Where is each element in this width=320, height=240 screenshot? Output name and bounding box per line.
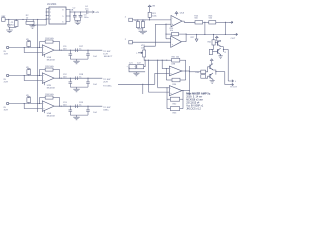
wire stage B out bbox=[216, 71, 225, 73]
wire feedback line bbox=[166, 33, 172, 35]
wire U4A output bbox=[182, 90, 189, 92]
wire op-amp power stub bbox=[44, 55, 46, 58]
wire feedback bus U3B bbox=[167, 59, 172, 61]
wire emitters join B bbox=[213, 70, 216, 75]
wire U1A inverting input bbox=[166, 23, 171, 25]
wire feedback left leg bbox=[39, 98, 41, 104]
node +VB flag bbox=[92, 11, 94, 13]
op-amp U3A bbox=[42, 101, 54, 112]
U1 left pins bbox=[46, 9, 49, 20]
svg-text:R14 100k: R14 100k bbox=[45, 38, 54, 40]
wire stub bbox=[142, 84, 144, 94]
svg-text:R15 100k: R15 100k bbox=[45, 66, 54, 68]
wire feedback right bbox=[185, 60, 187, 71]
op-amp U1A bbox=[171, 16, 182, 27]
resistor R24 feedback bbox=[172, 32, 179, 35]
ground bbox=[133, 72, 139, 76]
wire bbox=[216, 21, 229, 23]
node down arrow flag bbox=[195, 39, 198, 42]
node +VB flag bbox=[215, 36, 218, 39]
wire out R bbox=[225, 84, 230, 86]
resistor R12 bias bbox=[27, 70, 31, 75]
wire bridge 1 bbox=[204, 22, 206, 34]
wire feedback left leg bbox=[39, 70, 41, 76]
wire to noninverting bbox=[23, 76, 25, 81]
resistor R31 feedback bbox=[172, 58, 180, 62]
resistor R44 base bbox=[201, 75, 206, 79]
svg-text:+VB: +VB bbox=[151, 6, 156, 8]
wire feedback right bbox=[182, 91, 184, 109]
wire feedback top bbox=[40, 41, 46, 43]
svg-text:3CH: 3CH bbox=[4, 109, 9, 111]
wire Q4 emitter down bbox=[212, 79, 214, 80]
capacitor C1 bbox=[7, 19, 11, 27]
wire Q3 collector bbox=[211, 62, 213, 64]
node VB flag bar bbox=[27, 68, 30, 70]
svg-text:LM 2904: LM 2904 bbox=[47, 3, 57, 6]
connector input IN bbox=[6, 46, 8, 48]
resistor R32 feedback bbox=[170, 97, 179, 101]
wire Q4 base bbox=[206, 76, 210, 78]
wire feedback top bbox=[40, 69, 46, 71]
node +VB flag bbox=[210, 59, 213, 62]
wire op-amp output bbox=[54, 77, 102, 79]
capacitor C19 series bbox=[76, 104, 78, 108]
wire U4A feedback left bbox=[166, 88, 168, 109]
svg-text:TO SW: TO SW bbox=[103, 51, 111, 53]
svg-text:2: 2 bbox=[50, 12, 51, 14]
svg-text:2CH: 2CH bbox=[4, 81, 9, 83]
wire cap-resistor common to ground bbox=[9, 26, 16, 28]
wire emitters join bbox=[221, 46, 224, 48]
ground bbox=[73, 115, 79, 120]
resistor R11 bias bbox=[27, 42, 31, 47]
transistor Q3 bbox=[209, 65, 211, 69]
wire shunt common bbox=[70, 86, 88, 88]
wire op-amp power stub bbox=[44, 111, 46, 114]
wire bridge 2 bbox=[224, 22, 226, 34]
U1 right pins bbox=[66, 10, 70, 22]
wire lower output chain bbox=[186, 33, 233, 35]
wire Q3 base bbox=[206, 67, 210, 72]
wire input bbox=[9, 103, 43, 105]
svg-text:OUT: OUT bbox=[231, 38, 236, 40]
svg-text:3: 3 bbox=[50, 15, 51, 17]
wire from label net bbox=[118, 83, 155, 85]
transistor Q2 bbox=[217, 49, 219, 53]
svg-text:R22: R22 bbox=[134, 20, 137, 22]
ground bbox=[139, 29, 147, 34]
wire bbox=[203, 21, 209, 23]
capacitor C22 electrolytic bbox=[129, 65, 136, 69]
node VB flag bar bbox=[27, 40, 30, 42]
svg-text:100k: 100k bbox=[152, 15, 156, 17]
wire feedback left leg bbox=[39, 42, 41, 48]
capacitor C4 series bbox=[86, 10, 88, 14]
node +VB flag bbox=[148, 5, 151, 8]
svg-text:R31 10k: R31 10k bbox=[172, 56, 179, 58]
wire stage A out bbox=[223, 48, 228, 50]
svg-text:1: 1 bbox=[50, 8, 51, 10]
svg-text:U3B: U3B bbox=[171, 64, 176, 66]
resistor R33 bbox=[170, 107, 179, 111]
wire drive stage A bbox=[213, 34, 215, 39]
resistor R34 feedback bbox=[172, 78, 180, 82]
wire input power rail bbox=[9, 18, 46, 20]
node +VB flag bbox=[175, 12, 178, 15]
op-amp U4A bbox=[169, 86, 182, 96]
wire Q2 links bbox=[213, 50, 218, 52]
node output arrow L bbox=[230, 80, 234, 82]
op-amp U2A bbox=[42, 45, 54, 56]
wire U3B noninverting bbox=[155, 72, 170, 74]
wire pot bottom rail bbox=[144, 57, 167, 60]
op-amp U3B bbox=[169, 66, 182, 76]
resistor R25 bbox=[195, 21, 203, 24]
transistor Q4 bbox=[209, 74, 211, 78]
wire U4A inverting bbox=[157, 60, 159, 88]
connector input IN bbox=[6, 102, 8, 104]
wire to U1A noninverting bbox=[132, 19, 171, 21]
svg-text:MC4558: MC4558 bbox=[47, 87, 56, 89]
ground bbox=[29, 25, 35, 28]
wire op-amp output bbox=[54, 105, 102, 107]
op-amp U1B bbox=[171, 36, 182, 47]
resistor R1 bbox=[14, 21, 18, 27]
node output arrow rec bbox=[229, 21, 233, 23]
wire Q1 base link bbox=[215, 41, 217, 43]
resistor R26 bbox=[209, 21, 216, 24]
wire U1B output bbox=[182, 41, 187, 43]
svg-text:R16 100k: R16 100k bbox=[45, 94, 54, 96]
capacitor C18 series bbox=[76, 76, 78, 80]
wire U1B inverting bbox=[166, 38, 171, 40]
wire U4A noninverting bbox=[147, 60, 149, 92]
wire pot top to U1A path bbox=[144, 24, 166, 50]
ground bbox=[219, 56, 223, 59]
svg-text:10k: 10k bbox=[141, 47, 144, 49]
capacitor C3 electrolytic bbox=[79, 12, 83, 21]
svg-text:6: 6 bbox=[62, 21, 63, 23]
wire U1 left rail bbox=[45, 9, 47, 26]
node output arrow R bbox=[230, 83, 234, 85]
svg-text:R OUT: R OUT bbox=[230, 87, 237, 89]
wire U3B output bbox=[182, 70, 189, 72]
capacitor C21 shunt bbox=[86, 78, 90, 87]
wire op-amp power stub bbox=[44, 83, 46, 86]
wire U3B lower feedback left bbox=[165, 69, 167, 80]
connector input IN bbox=[6, 74, 8, 76]
wire inverting to feedback bbox=[165, 24, 167, 34]
svg-text:8: 8 bbox=[62, 9, 63, 11]
resistor R42 base bbox=[209, 49, 212, 54]
capacitor C15 shunt bbox=[69, 78, 73, 87]
resistor R21 bbox=[148, 12, 151, 17]
wire op-amp output bbox=[54, 49, 102, 51]
wire Q1 collector bbox=[217, 39, 221, 41]
ground bbox=[73, 59, 79, 64]
wire Q2 emitter down bbox=[220, 54, 222, 55]
capacitor C20 shunt bbox=[86, 50, 90, 59]
wire U1A power bbox=[176, 14, 178, 17]
svg-text:TO SW: TO SW bbox=[103, 79, 111, 81]
svg-text:TO SW: TO SW bbox=[103, 107, 111, 109]
capacitor C17 series bbox=[76, 48, 78, 52]
wire U3B inverting bbox=[161, 60, 163, 68]
wire feedback right leg bbox=[53, 41, 60, 43]
wire feedback top bbox=[40, 97, 46, 99]
svg-text:JH1OCS v1.2: JH1OCS v1.2 bbox=[186, 108, 201, 111]
wire output bus bbox=[188, 66, 190, 95]
svg-text:U1A: U1A bbox=[180, 12, 185, 15]
svg-text:1: 1 bbox=[136, 53, 137, 55]
ground bbox=[75, 21, 81, 25]
ground bbox=[73, 87, 79, 92]
node VB flag bar bbox=[27, 96, 30, 98]
wire wiper bbox=[138, 52, 143, 54]
resistor R16 feedback bbox=[45, 96, 53, 99]
wire feedback right leg bbox=[53, 69, 60, 71]
wire to VB flag bbox=[88, 11, 92, 13]
ground bbox=[6, 27, 13, 32]
wire caps to ground bbox=[129, 67, 145, 72]
wire U1 right rail bbox=[69, 10, 71, 22]
wire caps to ground bbox=[75, 20, 81, 22]
svg-text:10k: 10k bbox=[170, 30, 173, 32]
connector J1 battery input bbox=[2, 18, 6, 22]
resistor R43 base bbox=[201, 70, 206, 74]
capacitor C22 shunt bbox=[86, 106, 90, 115]
node output arrow out bbox=[233, 33, 237, 35]
capacitor C2 bbox=[73, 12, 77, 21]
ground bbox=[210, 81, 215, 84]
resistor R2 bbox=[26, 21, 34, 24]
svg-text:2CH: 2CH bbox=[103, 82, 108, 84]
op-amp U2B bbox=[42, 73, 54, 84]
wire out L bbox=[228, 80, 229, 82]
resistor R22 bbox=[136, 22, 139, 28]
capacitor C21 electrolytic bbox=[137, 65, 144, 69]
svg-text:MC4558: MC4558 bbox=[47, 59, 56, 61]
wire VB output rail bbox=[70, 11, 86, 13]
svg-text:TO U3B+: TO U3B+ bbox=[103, 86, 112, 88]
wire to noninverting bbox=[23, 48, 25, 53]
capacitor C14 shunt bbox=[69, 50, 73, 59]
wire caps branch bbox=[144, 60, 145, 66]
svg-text:1CH: 1CH bbox=[4, 53, 9, 55]
resistor R14 feedback bbox=[45, 40, 53, 43]
wire VB distribution vertical bbox=[37, 19, 39, 112]
wire feedback right leg bbox=[53, 97, 60, 99]
svg-text:+VB: +VB bbox=[95, 12, 100, 14]
svg-text:U3B+: U3B+ bbox=[103, 110, 109, 112]
connector from selector ch2 bbox=[129, 41, 133, 44]
wire to U1B noninverting bbox=[132, 41, 170, 43]
wire shunt common bbox=[70, 58, 88, 60]
wire input bbox=[9, 75, 43, 77]
wire divider common bbox=[138, 28, 143, 30]
resistor R23 bbox=[141, 22, 144, 28]
potentiometer VR1 bbox=[143, 50, 146, 57]
svg-text:R23: R23 bbox=[142, 20, 145, 22]
connector from selector ch1 bbox=[129, 18, 133, 21]
wire drive stage B bbox=[189, 71, 201, 73]
wire shunt common bbox=[70, 114, 88, 116]
wire to noninverting bbox=[23, 104, 25, 109]
svg-text:4: 4 bbox=[50, 19, 51, 21]
wire U1A output chain bbox=[182, 21, 195, 22]
svg-text:MC4558: MC4558 bbox=[47, 115, 56, 117]
wire out vertical bbox=[227, 49, 229, 81]
transistor Q1 bbox=[217, 41, 219, 45]
wire input bbox=[9, 47, 43, 49]
resistor R41 base bbox=[212, 40, 215, 45]
IC U1 regulator box bbox=[49, 7, 66, 24]
capacitor C16 shunt bbox=[69, 106, 73, 115]
wire U1 rail to ground bbox=[33, 24, 47, 26]
wire R34 right bbox=[180, 79, 186, 81]
wire base chain bbox=[213, 45, 215, 49]
svg-text:SELECT: SELECT bbox=[104, 56, 113, 58]
resistor R15 feedback bbox=[45, 68, 53, 71]
svg-text:5: 5 bbox=[62, 16, 63, 18]
resistor R13 bias bbox=[27, 98, 31, 103]
